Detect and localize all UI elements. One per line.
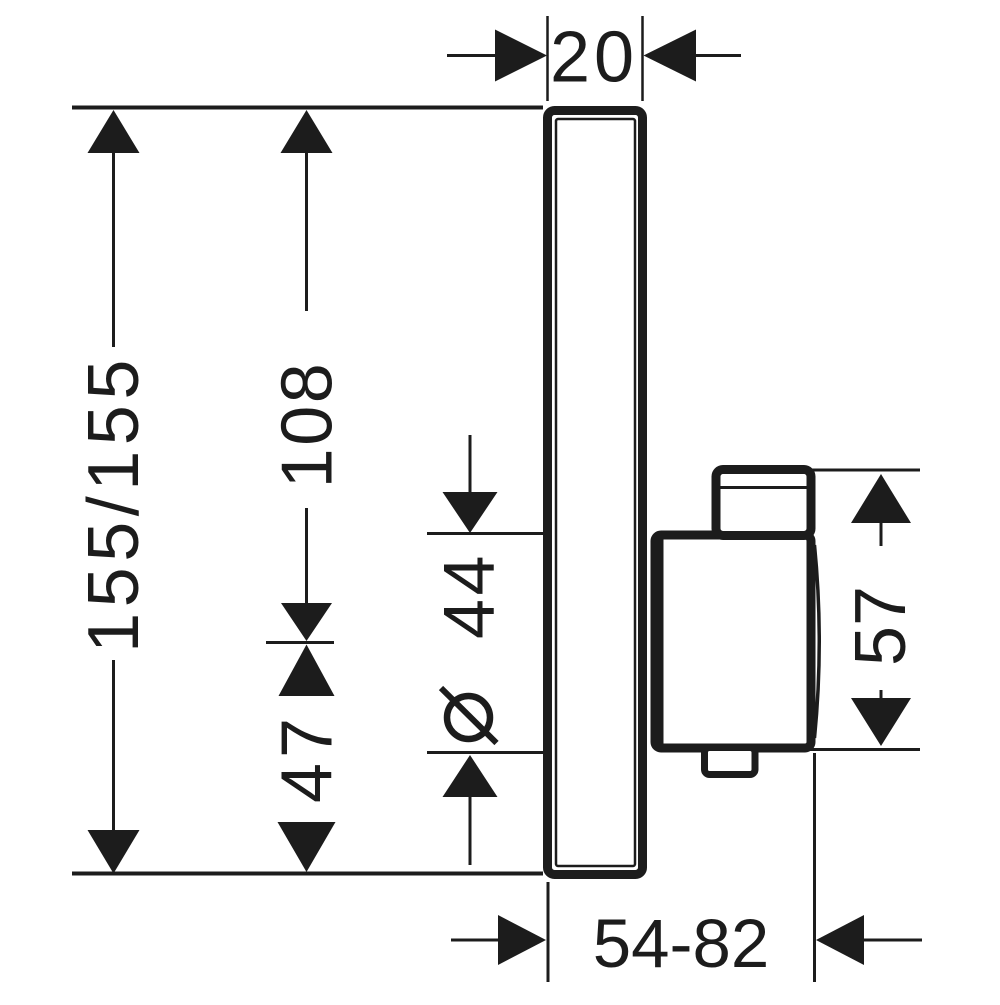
dim 20 right extension line: [641, 16, 644, 101]
dim Ø44 lower shaft: [469, 795, 472, 865]
dim 57 bottom arrow: [851, 698, 911, 746]
dim 47 top arrow: [279, 645, 335, 697]
dim 20 left shaft: [447, 54, 497, 57]
valve body (main block): [655, 535, 811, 748]
dim 57 top extension line: [807, 469, 920, 472]
dim 20 left extension line: [546, 16, 549, 101]
dim 54-82 left arrow: [498, 915, 546, 965]
dim 20 right shaft: [696, 54, 741, 57]
dim 54-82 right extension line: [813, 753, 816, 982]
dim 108 top arrow: [281, 110, 333, 153]
dim Ø44 down arrow: [443, 492, 498, 533]
dim 54-82 left shaft: [451, 939, 500, 942]
dim 57 bottom extension line: [807, 748, 920, 751]
svg-text:44: 44: [430, 552, 510, 639]
bottom tab: [705, 748, 756, 775]
plate inner seam line rect: [556, 119, 635, 866]
dim 54-82 left extension line: [547, 882, 550, 982]
svg-text:57: 57: [841, 586, 921, 666]
dim 20 left arrow: [495, 30, 547, 82]
valve cap (top knob): [716, 470, 811, 536]
svg-text:54-82: 54-82: [593, 905, 769, 982]
svg-text:47: 47: [268, 713, 348, 803]
bottom extension line (plate bottom to left): [72, 872, 543, 876]
cap seam line: [712, 486, 815, 489]
dim 155/155 lower shaft: [112, 660, 115, 830]
valve body right bulge arc: [815, 545, 820, 738]
dim 20 right arrow: [644, 30, 697, 82]
svg-text:155/155: 155/155: [74, 354, 154, 653]
junction tick between 108 and 47: [266, 641, 334, 644]
dim Ø44 upper shaft: [469, 435, 472, 494]
dim 57 top shaft: [880, 521, 883, 546]
dim Ø44 top tick: [427, 532, 543, 535]
svg-text:20: 20: [550, 18, 638, 98]
dim 47 bottom arrow: [278, 822, 336, 872]
dim Ø44 label diameter symbol slash: [441, 688, 497, 743]
valve body left edge thickening: [659, 533, 664, 750]
dim 57 top arrow: [851, 474, 911, 523]
dim Ø44 up arrow: [443, 755, 498, 797]
dim Ø44 bottom tick: [427, 751, 543, 754]
dim 57 bottom shaft: [880, 690, 883, 701]
svg-text:108: 108: [268, 361, 348, 489]
dim 155/155 top arrow: [88, 110, 140, 153]
dim 108 bottom arrow: [281, 603, 332, 641]
dim 54-82 right shaft: [864, 939, 922, 942]
dim 155/155 bottom arrow: [88, 830, 140, 874]
dim 54-82 right arrow: [816, 915, 864, 965]
dim 155/155 upper shaft: [112, 151, 115, 347]
dim 108 upper shaft: [305, 151, 308, 311]
dim 108 lower shaft: [305, 508, 308, 607]
escutcheon plate (side view outer rect): [548, 111, 643, 875]
dim Ø44 label diameter symbol circle: [447, 696, 490, 739]
top extension line (plate top to left): [72, 106, 543, 110]
